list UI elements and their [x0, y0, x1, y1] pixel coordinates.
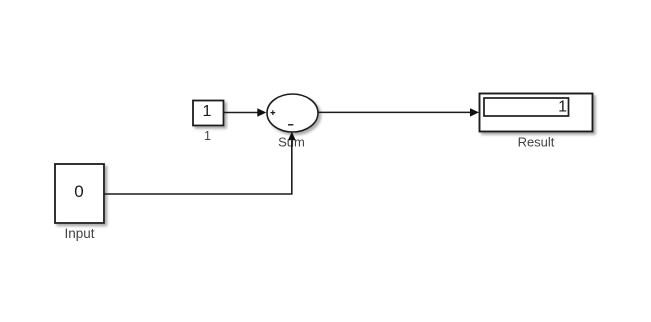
sum block (ellipse)	[267, 94, 318, 132]
arrowhead into Sum left port	[257, 108, 266, 116]
display block Result	[480, 94, 593, 132]
svg-text:1: 1	[558, 99, 567, 116]
svg-text:Input: Input	[64, 226, 94, 241]
minus sign (Sum port 2)	[288, 124, 293, 126]
wire Input to Sum bottom port (L-shaped)	[104, 141, 292, 195]
wire Sum to Result	[318, 111, 471, 113]
svg-text:1: 1	[203, 103, 212, 120]
arrowhead into Sum bottom port	[288, 132, 296, 141]
svg-text:0: 0	[74, 182, 83, 201]
svg-text:1: 1	[204, 129, 211, 143]
input block "0" (bottom left)	[55, 164, 104, 223]
svg-text:Result: Result	[518, 135, 555, 150]
plus sign (Sum port 1)	[271, 110, 276, 115]
arrowhead into Result input port	[470, 108, 479, 116]
wire constant to Sum	[224, 112, 259, 114]
constant block "1" (source, top left)	[193, 101, 224, 126]
